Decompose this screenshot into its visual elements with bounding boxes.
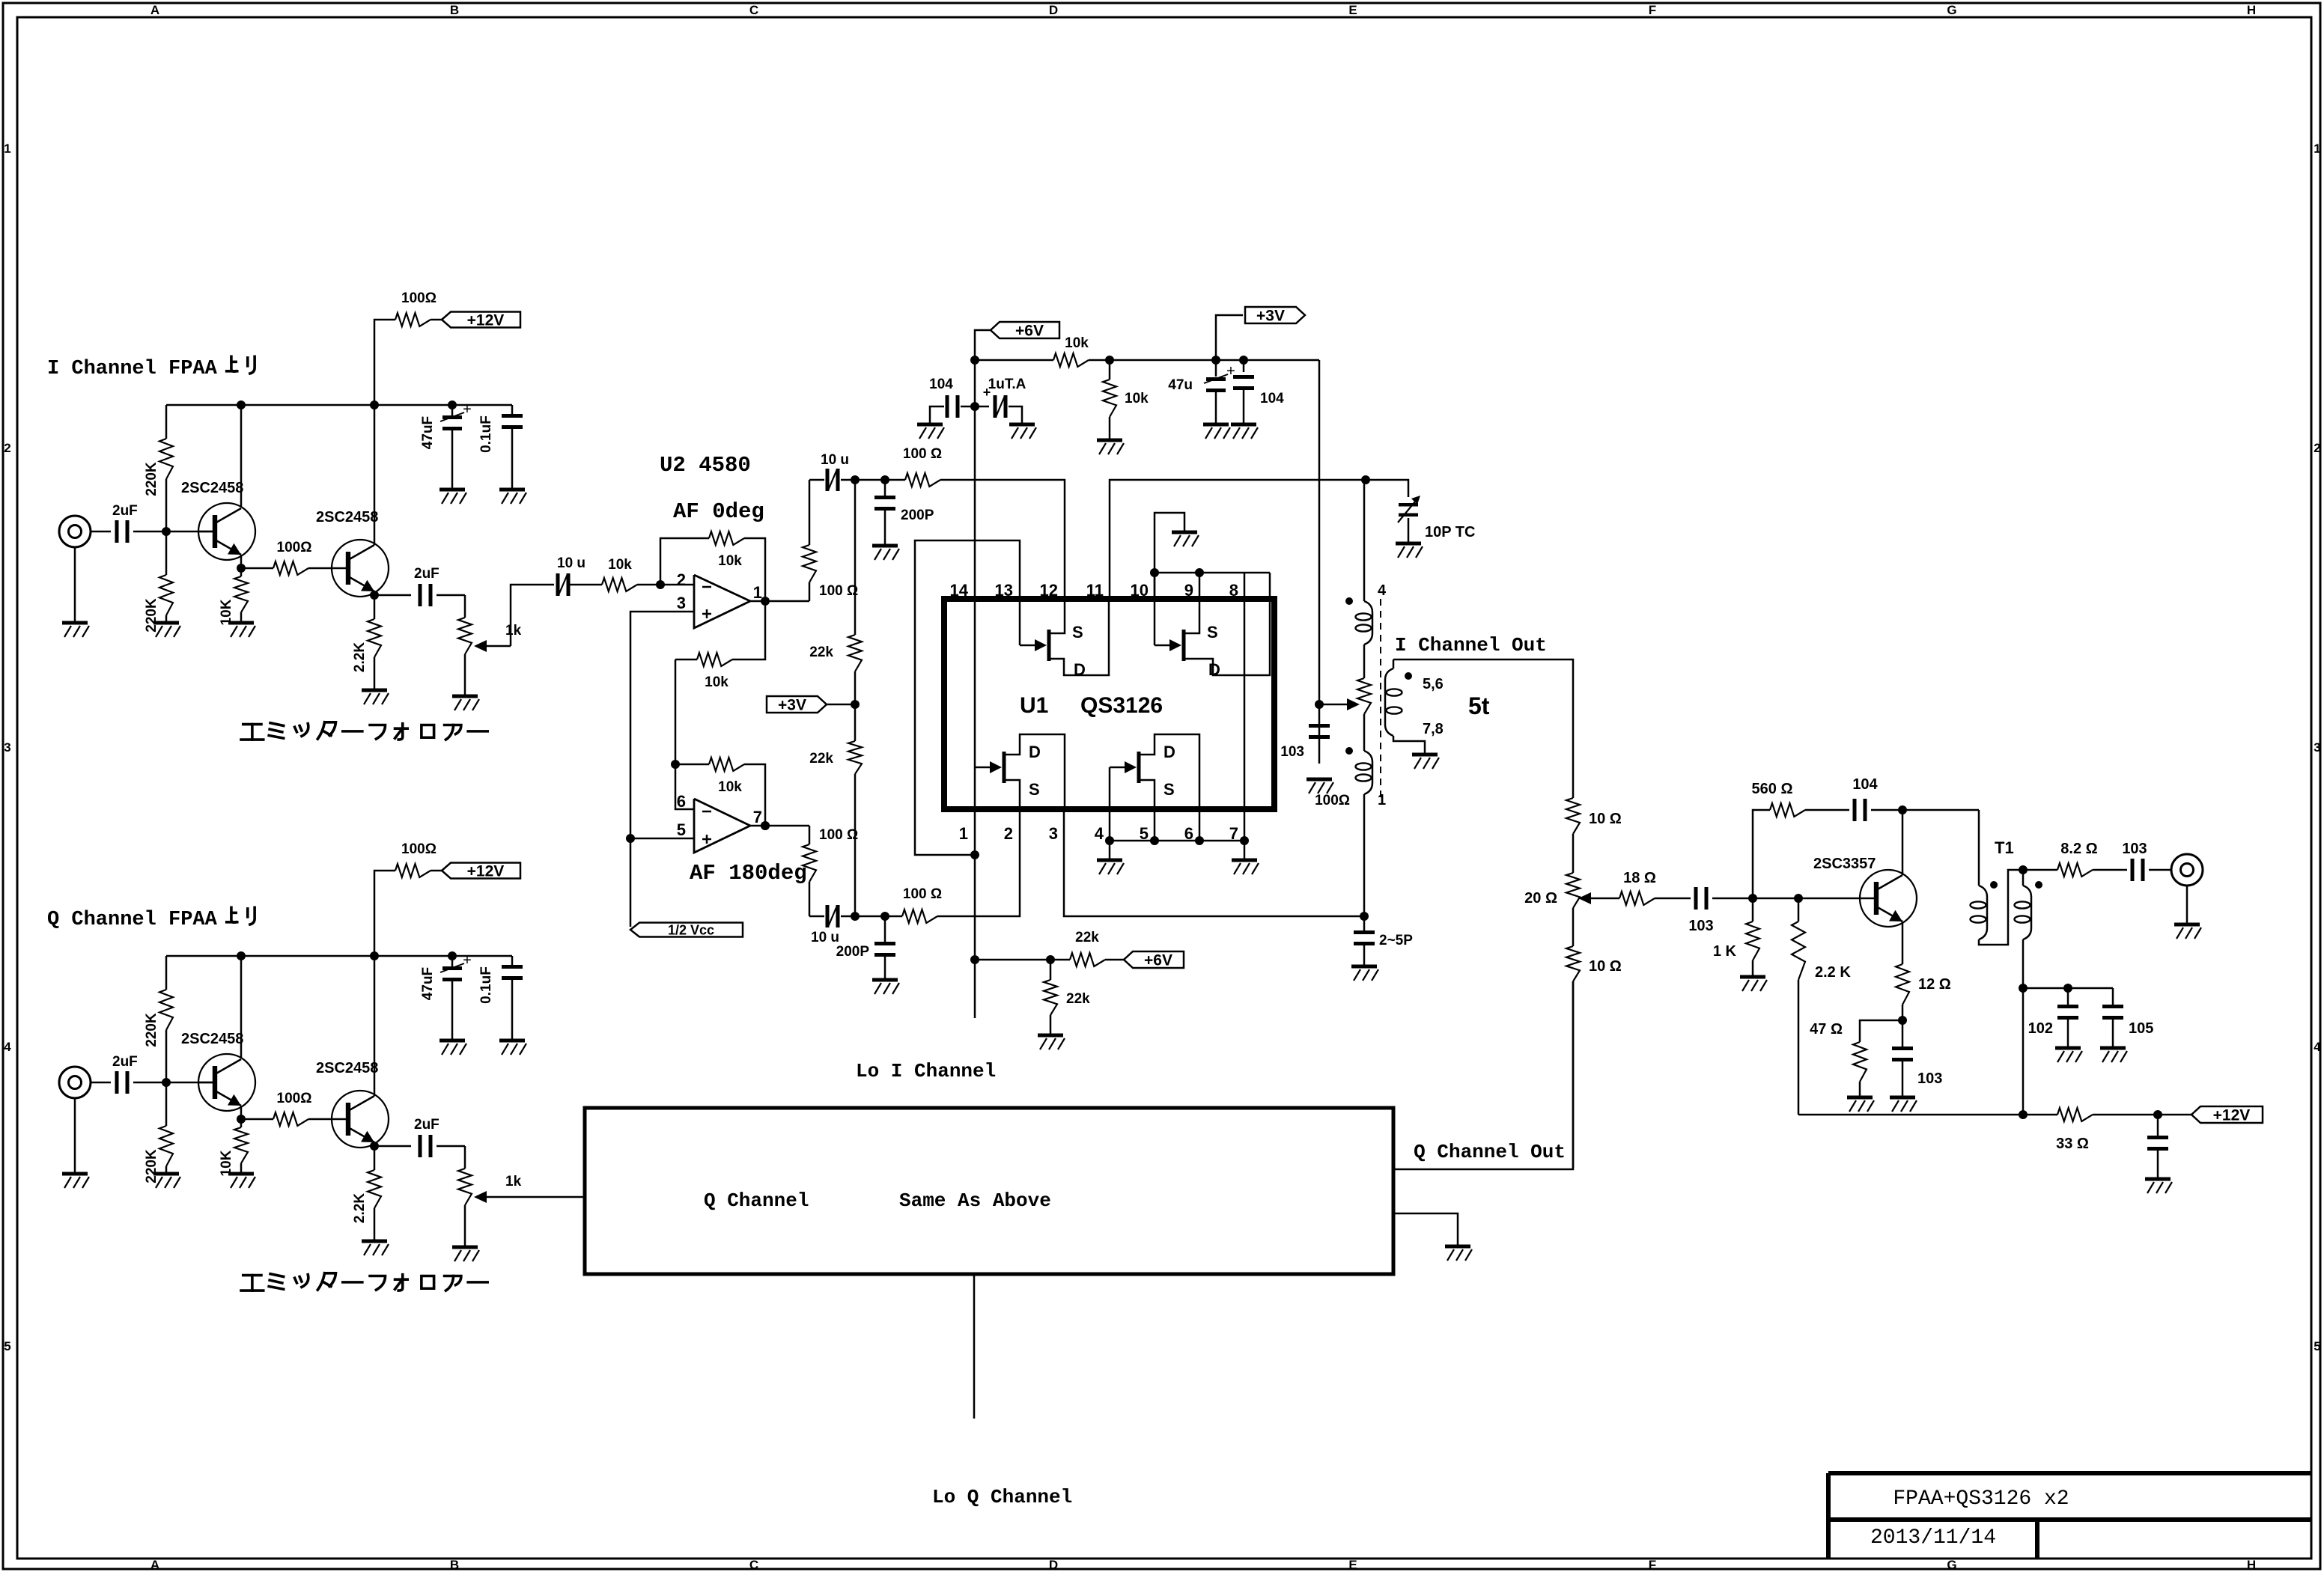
svg-text:220K: 220K <box>144 1013 159 1047</box>
svg-text:Q Channel Out: Q Channel Out <box>1414 1141 1566 1163</box>
svg-text:220K: 220K <box>144 462 159 496</box>
svg-text:22k: 22k <box>809 645 833 660</box>
svg-text:47 Ω: 47 Ω <box>1810 1021 1843 1038</box>
svg-text:I Channel Out: I Channel Out <box>1395 634 1547 656</box>
svg-text:+3V: +3V <box>1256 307 1285 324</box>
svg-text:10P TC: 10P TC <box>1425 524 1475 540</box>
svg-text:20 Ω: 20 Ω <box>1524 890 1557 907</box>
svg-text:103: 103 <box>1917 1070 1942 1087</box>
svg-text:QS3126: QS3126 <box>1080 693 1163 718</box>
svg-text:33 Ω: 33 Ω <box>2056 1136 2089 1152</box>
svg-text:100 Ω: 100 Ω <box>819 583 858 599</box>
svg-text:S: S <box>1029 780 1040 799</box>
svg-text:3: 3 <box>2314 740 2320 755</box>
svg-text:103: 103 <box>1280 744 1304 760</box>
svg-text:104: 104 <box>1260 391 1284 406</box>
svg-text:2SC2458: 2SC2458 <box>181 480 243 496</box>
svg-text:Lo I Channel: Lo I Channel <box>856 1060 996 1082</box>
svg-text:0.1uF: 0.1uF <box>478 415 494 453</box>
svg-text:AF 180deg: AF 180deg <box>690 861 807 886</box>
svg-text:S: S <box>1207 623 1218 642</box>
svg-text:10k: 10k <box>705 674 728 690</box>
svg-text:I Channel FPAA: I Channel FPAA <box>47 358 218 380</box>
svg-text:100Ω: 100Ω <box>277 1091 312 1106</box>
svg-text:22k: 22k <box>1066 991 1090 1007</box>
svg-text:FPAA+QS3126 x2: FPAA+QS3126 x2 <box>1893 1487 2069 1511</box>
svg-text:2uF: 2uF <box>414 566 439 582</box>
svg-text:4: 4 <box>1378 582 1387 599</box>
svg-text:200P: 200P <box>836 944 870 960</box>
svg-text:1/2 Vcc: 1/2 Vcc <box>668 922 714 937</box>
svg-text:13: 13 <box>995 581 1013 600</box>
svg-text:A: A <box>150 1558 159 1572</box>
svg-text:14: 14 <box>950 581 969 600</box>
svg-text:4: 4 <box>1095 824 1104 843</box>
svg-text:10 Ω: 10 Ω <box>1589 958 1622 975</box>
svg-text:D: D <box>1074 660 1086 679</box>
svg-text:7,8: 7,8 <box>1423 721 1444 737</box>
svg-text:10 Ω: 10 Ω <box>1589 811 1622 827</box>
svg-text:100Ω: 100Ω <box>1315 793 1350 808</box>
svg-text:E: E <box>1348 3 1357 17</box>
svg-text:0.1uF: 0.1uF <box>478 966 494 1004</box>
svg-text:100Ω: 100Ω <box>401 290 436 306</box>
svg-text:D: D <box>1049 1558 1058 1572</box>
svg-text:U1: U1 <box>1020 693 1048 718</box>
svg-text:220K: 220K <box>144 1149 159 1183</box>
svg-text:2013/11/14: 2013/11/14 <box>1870 1526 1996 1550</box>
svg-text:47uF: 47uF <box>420 416 436 449</box>
svg-text:10k: 10k <box>718 779 742 795</box>
svg-text:2.2K: 2.2K <box>352 642 368 672</box>
svg-text:1 K: 1 K <box>1713 943 1737 960</box>
svg-text:1: 1 <box>959 824 968 843</box>
svg-text:S: S <box>1163 780 1175 799</box>
svg-text:10K: 10K <box>219 1150 234 1176</box>
svg-text:+6V: +6V <box>1144 951 1172 969</box>
svg-text:Same As Above: Same As Above <box>899 1189 1051 1212</box>
svg-text:Lo Q Channel: Lo Q Channel <box>932 1486 1072 1508</box>
svg-text:+3V: +3V <box>778 696 806 713</box>
svg-text:22k: 22k <box>809 751 833 767</box>
svg-text:10K: 10K <box>219 599 234 625</box>
svg-text:100Ω: 100Ω <box>277 540 312 555</box>
svg-text:104: 104 <box>929 377 953 392</box>
svg-text:+: + <box>463 952 472 969</box>
svg-text:102: 102 <box>2028 1020 2053 1037</box>
svg-text:10k: 10k <box>1125 391 1149 406</box>
svg-text:2.2K: 2.2K <box>352 1193 368 1223</box>
svg-text:C: C <box>749 3 758 17</box>
svg-text:47uF: 47uF <box>420 967 436 1000</box>
svg-text:C: C <box>749 1558 758 1572</box>
svg-text:10: 10 <box>1131 581 1149 600</box>
svg-text:1k: 1k <box>505 623 522 639</box>
svg-text:7: 7 <box>753 808 762 826</box>
svg-text:1: 1 <box>1378 792 1386 808</box>
svg-text:F: F <box>1649 3 1656 17</box>
svg-text:2: 2 <box>4 441 10 455</box>
svg-text:200P: 200P <box>901 508 934 523</box>
svg-text:8: 8 <box>1229 581 1238 600</box>
svg-text:+: + <box>463 401 472 418</box>
svg-text:8.2 Ω: 8.2 Ω <box>2060 841 2097 857</box>
svg-text:Q Channel FPAA: Q Channel FPAA <box>47 909 218 931</box>
svg-text:3: 3 <box>677 594 686 612</box>
svg-text:AF 0deg: AF 0deg <box>673 499 764 524</box>
svg-text:5t: 5t <box>1468 692 1490 719</box>
svg-text:100Ω: 100Ω <box>401 841 436 857</box>
svg-text:G: G <box>1947 3 1956 17</box>
svg-text:105: 105 <box>2129 1020 2153 1037</box>
svg-text:Q Channel: Q Channel <box>704 1189 809 1212</box>
svg-text:1: 1 <box>753 583 762 602</box>
svg-text:S: S <box>1072 623 1083 642</box>
svg-text:A: A <box>150 3 159 17</box>
svg-text:D: D <box>1208 660 1220 679</box>
svg-text:100 Ω: 100 Ω <box>903 446 942 462</box>
svg-text:2SC3357: 2SC3357 <box>1813 856 1876 872</box>
svg-text:2: 2 <box>677 570 686 589</box>
svg-text:2: 2 <box>1004 824 1013 843</box>
svg-text:12: 12 <box>1040 581 1058 600</box>
svg-text:3: 3 <box>1049 824 1058 843</box>
svg-text:220K: 220K <box>144 598 159 633</box>
svg-text:2: 2 <box>2314 441 2320 455</box>
svg-text:F: F <box>1649 1558 1656 1572</box>
svg-text:2.2 K: 2.2 K <box>1815 964 1851 981</box>
svg-text:1k: 1k <box>505 1174 522 1189</box>
svg-text:22k: 22k <box>1075 930 1099 945</box>
svg-text:D: D <box>1049 3 1058 17</box>
svg-text:104: 104 <box>1852 776 1878 793</box>
svg-text:D: D <box>1163 743 1175 761</box>
svg-text:U2 4580: U2 4580 <box>660 453 751 478</box>
svg-text:10k: 10k <box>1065 335 1089 351</box>
svg-text:560 Ω: 560 Ω <box>1752 781 1793 797</box>
svg-text:5: 5 <box>2314 1339 2320 1353</box>
svg-text:2SC2458: 2SC2458 <box>316 509 378 525</box>
svg-text:18 Ω: 18 Ω <box>1623 870 1656 886</box>
svg-text:4: 4 <box>4 1040 11 1054</box>
svg-text:+6V: +6V <box>1015 322 1044 339</box>
svg-text:H: H <box>2247 1558 2256 1572</box>
svg-text:4: 4 <box>2314 1040 2321 1054</box>
svg-text:3: 3 <box>4 740 10 755</box>
svg-text:103: 103 <box>2122 841 2147 857</box>
svg-text:2SC2458: 2SC2458 <box>316 1060 378 1076</box>
svg-text:T1: T1 <box>1995 838 2014 857</box>
svg-text:10k: 10k <box>608 557 632 573</box>
svg-text:1uT.A: 1uT.A <box>988 377 1026 392</box>
svg-text:103: 103 <box>1688 918 1713 934</box>
svg-text:H: H <box>2247 3 2256 17</box>
svg-text:B: B <box>450 1558 459 1572</box>
svg-text:5: 5 <box>4 1339 10 1353</box>
svg-text:10k: 10k <box>718 553 742 569</box>
svg-text:B: B <box>450 3 459 17</box>
svg-text:+12V: +12V <box>467 862 505 880</box>
svg-text:5: 5 <box>677 820 686 839</box>
svg-text:5,6: 5,6 <box>1423 676 1444 692</box>
svg-text:11: 11 <box>1086 581 1104 600</box>
svg-text:E: E <box>1348 1558 1357 1572</box>
svg-text:D: D <box>1029 743 1041 761</box>
svg-text:10 u: 10 u <box>557 555 585 571</box>
svg-text:+12V: +12V <box>2213 1106 2251 1124</box>
svg-text:47u: 47u <box>1168 377 1193 393</box>
svg-text:1: 1 <box>4 141 10 156</box>
svg-text:2SC2458: 2SC2458 <box>181 1031 243 1047</box>
svg-text:10 u: 10 u <box>821 452 849 468</box>
svg-text:G: G <box>1947 1558 1956 1572</box>
svg-text:2uF: 2uF <box>414 1117 439 1133</box>
svg-text:12 Ω: 12 Ω <box>1918 976 1951 993</box>
svg-text:2uF: 2uF <box>112 1054 138 1070</box>
svg-text:9: 9 <box>1184 581 1193 600</box>
svg-text:10 u: 10 u <box>811 930 839 945</box>
svg-text:6: 6 <box>677 792 686 811</box>
svg-text:1: 1 <box>2314 141 2320 156</box>
svg-text:2uF: 2uF <box>112 503 138 519</box>
svg-text:100 Ω: 100 Ω <box>903 886 942 902</box>
svg-text:2~5P: 2~5P <box>1379 933 1413 948</box>
svg-text:100 Ω: 100 Ω <box>819 827 858 843</box>
svg-text:+12V: +12V <box>467 311 505 329</box>
